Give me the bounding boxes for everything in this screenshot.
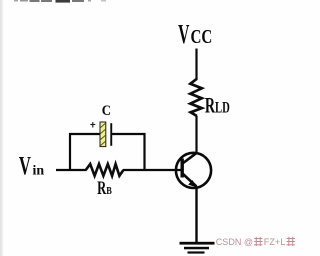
watermark CSDN xyxy=(216,237,295,248)
capacitor C xyxy=(100,122,112,147)
wire loop right xyxy=(143,133,145,171)
label RB xyxy=(97,178,112,199)
svg-text:R: R xyxy=(97,178,106,199)
svg-text:V: V xyxy=(178,18,189,49)
wire RLD to Q1 collector xyxy=(195,116,197,154)
wire emitter to ground xyxy=(195,187,197,243)
svg-text:FZ+L: FZ+L xyxy=(264,237,286,248)
svg-text:in: in xyxy=(33,164,45,179)
net Vcc label xyxy=(178,18,212,49)
svg-text:CC: CC xyxy=(191,26,213,48)
resistor RB xyxy=(86,164,124,176)
wire Vin to RB xyxy=(56,169,87,171)
cropped text fragment top xyxy=(14,0,106,3)
node Vin label xyxy=(19,151,44,181)
svg-text:CSDN @: CSDN @ xyxy=(216,237,253,248)
wire RB to base xyxy=(123,169,181,171)
transistor Q1 xyxy=(176,153,211,188)
svg-text:LD: LD xyxy=(215,99,230,116)
svg-text:C: C xyxy=(102,103,111,119)
ground xyxy=(180,242,215,254)
polarity plus xyxy=(90,122,95,128)
svg-text:V: V xyxy=(19,151,31,181)
label RLD xyxy=(205,92,230,117)
wire Vcc to RLD xyxy=(195,49,197,81)
wire loop left xyxy=(69,133,71,171)
resistor RLD xyxy=(190,79,202,116)
svg-text:B: B xyxy=(106,186,112,197)
svg-text:R: R xyxy=(205,92,216,117)
wire loop top-right xyxy=(112,133,146,135)
wire loop top-left xyxy=(69,133,100,135)
